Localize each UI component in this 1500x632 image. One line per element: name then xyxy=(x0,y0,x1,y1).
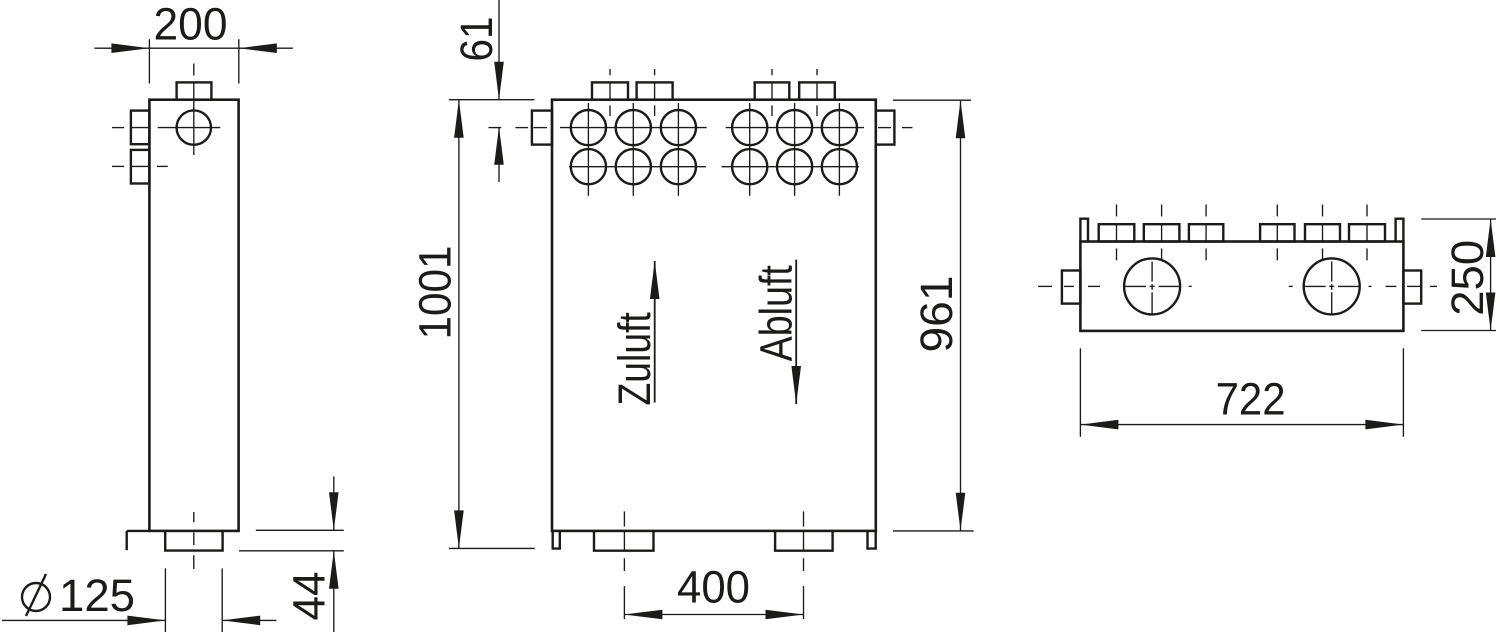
svg-text:250: 250 xyxy=(1442,240,1493,316)
svg-text:Zuluft: Zuluft xyxy=(609,312,660,406)
svg-text:Abluft: Abluft xyxy=(751,265,802,362)
svg-text:1001: 1001 xyxy=(410,246,461,340)
svg-text:125: 125 xyxy=(59,570,135,621)
svg-text:61: 61 xyxy=(451,17,502,62)
svg-text:722: 722 xyxy=(1216,374,1286,425)
svg-text:44: 44 xyxy=(284,572,335,621)
svg-text:961: 961 xyxy=(911,276,962,353)
svg-text:200: 200 xyxy=(154,0,228,50)
svg-text:400: 400 xyxy=(677,561,750,612)
